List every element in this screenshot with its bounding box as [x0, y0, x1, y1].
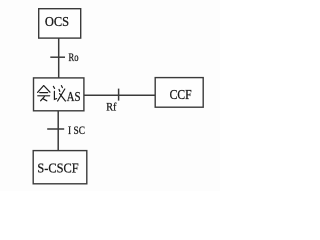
svg-text:Ro: Ro: [69, 50, 79, 64]
svg-text:S-CSCF: S-CSCF: [37, 161, 78, 176]
svg-text:CCF: CCF: [170, 88, 192, 103]
block ConfAS (会议AS): [34, 78, 84, 111]
tick Ro reference point: [50, 56, 65, 58]
block CCF: [155, 78, 203, 108]
wire ConfAS to CCF: [84, 94, 155, 96]
block S-CSCF: [33, 151, 87, 184]
block OCS: [39, 9, 81, 38]
glyph 议: [53, 86, 65, 101]
glyph 会: [38, 86, 50, 101]
svg-text:Rf: Rf: [106, 99, 116, 113]
svg-text:OCS: OCS: [45, 15, 69, 30]
wire ConfAS to S-CSCF: [57, 111, 59, 150]
tick Rf reference point: [118, 89, 120, 101]
svg-text:I SC: I SC: [68, 123, 85, 137]
svg-text:AS: AS: [67, 90, 81, 105]
wire OCS to ConfAS: [58, 38, 60, 77]
tick ISC reference point: [47, 128, 64, 130]
